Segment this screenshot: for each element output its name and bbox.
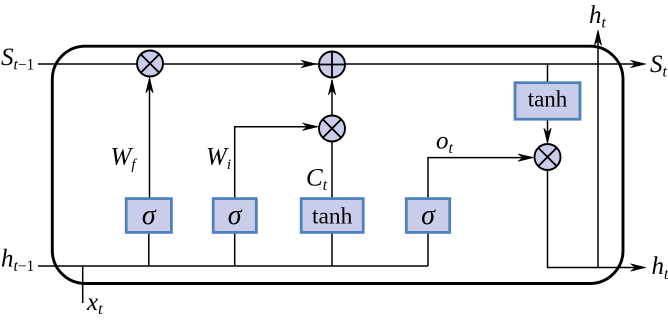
- tanh box top right: [515, 83, 580, 120]
- multiply node 3 (output gate): [535, 144, 561, 170]
- svg-text:σ: σ: [228, 200, 243, 231]
- svg-text:tanh: tanh: [528, 86, 568, 111]
- wire sigma1 down: [148, 232, 150, 266]
- wire multiply2 up to plus: [331, 80, 333, 116]
- wire sigma3 down: [427, 232, 429, 266]
- arrowhead h_t right exit: [631, 264, 647, 271]
- wire sigma1 up to multiply1: [149, 79, 151, 199]
- wire tanh1 up to multiply2: [331, 142, 333, 199]
- arrowhead o_t into multiply3: [518, 154, 534, 161]
- wire tanh2 input from S-line: [547, 64, 549, 83]
- svg-text:tanh: tanh: [312, 203, 353, 229]
- plus node: [319, 52, 345, 78]
- arrowhead S_t exit: [631, 60, 647, 67]
- sigma box 1: [126, 199, 171, 233]
- wire sigma2 down: [234, 232, 236, 266]
- wire h_t vertical up: [597, 33, 599, 268]
- arrowhead tanh2 into multiply3: [544, 128, 551, 144]
- wire h_t-1 line horizontal: [38, 265, 428, 267]
- svg-text:σ: σ: [421, 200, 436, 231]
- cell body rounded rectangle: [52, 46, 623, 283]
- arrowhead into plus: [301, 60, 317, 67]
- tanh box bottom: [301, 199, 363, 233]
- wire S-line horizontal: [38, 63, 638, 65]
- wire tanh2 output to multiply3: [547, 119, 549, 142]
- wire tanh1 down: [331, 232, 333, 266]
- wire multiply3 output down and right h_t exit: [548, 170, 639, 268]
- arrowhead sigma1 into multiply1: [146, 78, 153, 94]
- arrowhead W_i into multiply2: [303, 123, 319, 130]
- arrowhead multiply2 into plus: [328, 80, 335, 96]
- arrowhead h_t top exit: [594, 30, 601, 46]
- sigma box 3: [406, 199, 449, 233]
- wire o_t elbow sigma3 to multiply3: [428, 158, 532, 199]
- multiply node 2 (input gate): [319, 116, 345, 142]
- multiply node 1 (forget gate): [137, 51, 163, 77]
- sigma box 2: [213, 199, 256, 233]
- svg-text:σ: σ: [142, 200, 157, 231]
- wire x_t vertical: [82, 266, 84, 303]
- wire W_i elbow sigma2 to multiply2: [235, 127, 317, 199]
